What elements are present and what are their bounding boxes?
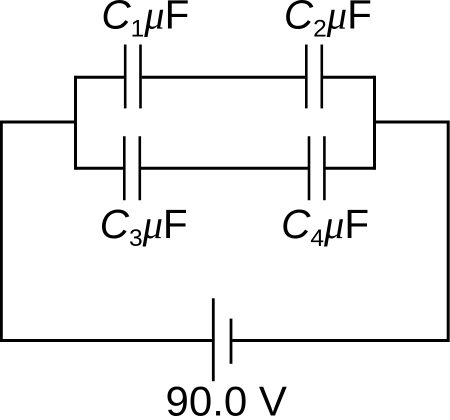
svg-text:90.0 V: 90.0 V [166,377,287,420]
wire top branch middle segment [142,76,305,79]
svg-text:C3μF: C3μF [100,201,188,252]
wire bottom left segment [1,339,212,342]
wire bottom branch left segment [76,167,124,170]
wire right connecting [375,121,449,124]
svg-text:C4μF: C4μF [281,201,369,252]
capacitor C2 [306,45,322,109]
wire top branch left segment [76,76,125,79]
wire outer left vertical [0,121,3,343]
battery B1 [213,298,231,381]
wire top branch right segment [323,76,375,79]
svg-text:C1μF: C1μF [101,0,189,42]
wire inner right vertical [373,76,376,170]
wire inner left vertical [74,76,77,170]
wire outer right vertical [447,121,450,343]
wire bottom branch right segment [326,167,375,170]
wire bottom right segment [232,339,448,342]
capacitor C3 [124,136,140,200]
svg-text:C2μF: C2μF [284,0,372,42]
wire bottom branch middle segment [141,167,308,170]
wire left connecting [1,121,75,124]
capacitor C4 [309,136,324,200]
capacitor C1 [125,45,140,109]
